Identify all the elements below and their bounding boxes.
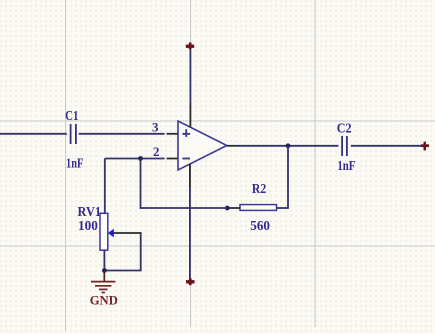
wire RV1 top vertical	[104, 159, 106, 214]
wire C1 to pin 3	[79, 133, 165, 135]
wire V- rail	[189, 187, 191, 278]
RV1 wiper arrow	[108, 229, 114, 238]
wire feedback to R2 right	[277, 207, 289, 209]
node junction R2 left	[225, 206, 230, 211]
power port + top	[186, 43, 194, 50]
svg-text:560: 560	[250, 219, 270, 234]
node junction output	[286, 143, 291, 148]
op-amp U1	[178, 121, 227, 170]
wire wiper loop vertical	[140, 233, 142, 271]
wire branch vertical	[140, 159, 142, 209]
resistor R2	[240, 205, 277, 211]
svg-text:100: 100	[78, 219, 98, 234]
node junction pin2 branch	[138, 156, 143, 161]
svg-text:C2: C2	[337, 122, 352, 137]
power port + right	[421, 142, 429, 151]
node junction RV1 bottom	[102, 268, 107, 273]
svg-text:2: 2	[153, 144, 160, 159]
wire pin 2 horizontal	[105, 158, 165, 160]
wire C2 to power port	[351, 145, 424, 147]
op-amp V+ pin stub	[189, 103, 191, 127]
wire branch horizontal	[141, 207, 228, 209]
wire input left segment	[0, 133, 67, 135]
svg-text:1nF: 1nF	[337, 159, 355, 174]
svg-text:3: 3	[152, 120, 159, 135]
capacitor C1	[71, 124, 76, 144]
pin 3 stub	[167, 133, 179, 135]
RV1 wiper pin stub	[114, 232, 142, 234]
svg-text:C1: C1	[65, 109, 78, 124]
svg-text:RV1: RV1	[78, 205, 102, 220]
output pin stub	[227, 145, 239, 147]
wire wiper loop bottom	[104, 270, 141, 272]
op-amp V- pin stub	[189, 164, 191, 188]
pin 2 stub	[167, 158, 179, 160]
potentiometer RV1	[100, 213, 108, 250]
power port + bottom	[186, 278, 195, 285]
svg-text:1nF: 1nF	[66, 157, 83, 172]
wire output run	[238, 145, 338, 147]
R2 left pin stub	[228, 207, 241, 209]
svg-text:GND: GND	[90, 292, 118, 307]
wire feedback vertical	[287, 146, 289, 208]
wire V+ rail	[189, 49, 191, 104]
capacitor C2	[342, 136, 347, 156]
svg-text:R2: R2	[252, 182, 266, 197]
ground	[91, 271, 115, 293]
wire RV1 bottom lead	[103, 250, 105, 272]
